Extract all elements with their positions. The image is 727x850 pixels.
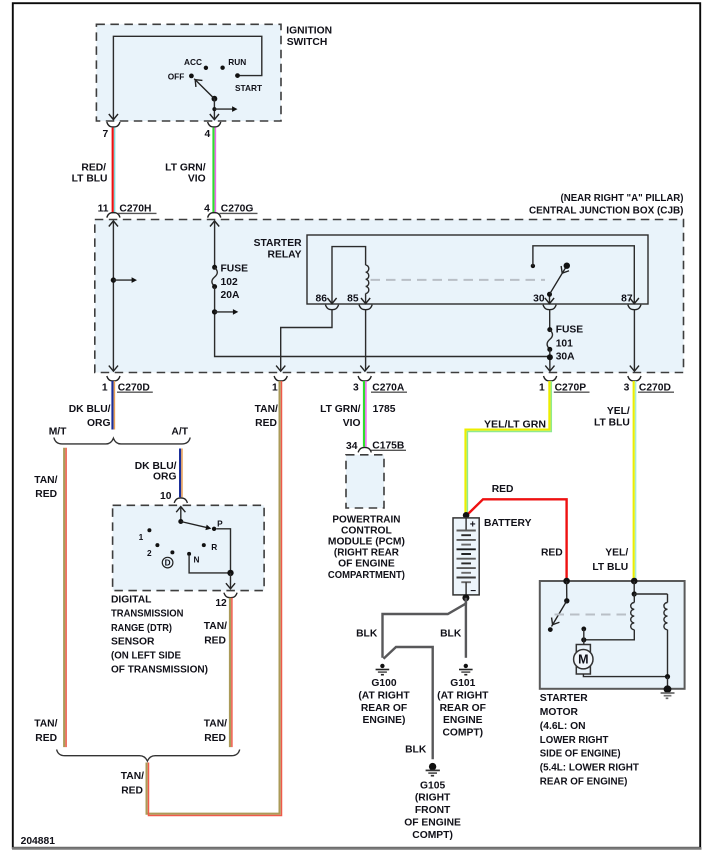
svg-text:(AT RIGHT: (AT RIGHT	[437, 690, 489, 701]
node fuse 102 branch	[212, 309, 217, 314]
wire BLK battery to G100	[383, 598, 466, 658]
svg-text:YEL/LT GRN: YEL/LT GRN	[484, 419, 546, 430]
svg-text:M: M	[578, 653, 588, 667]
svg-text:LOWER RIGHT: LOWER RIGHT	[540, 735, 609, 746]
svg-text:34: 34	[346, 441, 358, 452]
svg-text:COMPT): COMPT)	[412, 830, 453, 841]
node ACC	[204, 66, 208, 70]
svg-text:(4.6L: ON: (4.6L: ON	[540, 721, 586, 732]
svg-text:(RIGHT REAR: (RIGHT REAR	[334, 547, 400, 558]
svg-text:RED: RED	[35, 489, 57, 500]
svg-text:ORG: ORG	[87, 418, 110, 429]
svg-text:TAN/: TAN/	[121, 771, 144, 782]
svg-text:D: D	[165, 558, 171, 568]
svg-text:STARTER: STARTER	[540, 693, 588, 704]
connector C270H	[107, 213, 120, 218]
svg-text:ORG: ORG	[153, 471, 176, 482]
svg-text:TAN/: TAN/	[34, 475, 57, 486]
svg-text:REAR OF: REAR OF	[361, 703, 407, 714]
svg-text:+: +	[470, 520, 476, 531]
svg-text:REAR OF ENGINE): REAR OF ENGINE)	[540, 776, 628, 787]
svg-text:BLK: BLK	[440, 629, 462, 640]
svg-text:R: R	[211, 542, 217, 552]
svg-text:OF ENGINE: OF ENGINE	[338, 558, 395, 569]
svg-text:(ON LEFT SIDE: (ON LEFT SIDE	[111, 651, 181, 662]
node DTR output junction	[227, 570, 233, 576]
node motor feed	[581, 637, 586, 642]
svg-text:−: −	[470, 586, 476, 597]
svg-text:G105: G105	[420, 780, 445, 791]
svg-text:MOTOR: MOTOR	[540, 707, 579, 718]
ground G101	[459, 664, 473, 675]
node solenoid contact	[581, 627, 586, 632]
svg-text:(5.4L: LOWER RIGHT: (5.4L: LOWER RIGHT	[540, 763, 640, 774]
svg-text:1: 1	[272, 382, 278, 393]
connector pin 7 cup	[107, 122, 120, 127]
svg-text:FUSE: FUSE	[221, 264, 249, 275]
node DTR P	[212, 527, 216, 531]
svg-text:1: 1	[539, 382, 545, 393]
wire CJB left vertical C270H to C270D	[112, 222, 114, 371]
wire YEL/LT GRN C270P to battery	[466, 381, 550, 513]
svg-text:BLK: BLK	[405, 745, 427, 756]
svg-text:TAN/: TAN/	[34, 719, 57, 730]
relay fixed contact 87	[531, 264, 535, 268]
svg-text:LT BLU: LT BLU	[592, 562, 628, 573]
fuse F102	[212, 265, 217, 270]
wire DTR P to junction	[216, 529, 230, 570]
wire pin 7 arrow down	[109, 114, 118, 120]
svg-text:30: 30	[533, 294, 545, 305]
solenoid hold-in coil	[667, 594, 669, 603]
svg-text:TRANSMISSION: TRANSMISSION	[111, 609, 184, 620]
relay mechanical link dashed	[371, 279, 546, 281]
svg-text:3: 3	[353, 382, 359, 393]
svg-text:7: 7	[102, 129, 108, 140]
relay coil L1	[366, 265, 369, 293]
starter relay box	[307, 235, 648, 304]
node start signal	[631, 578, 638, 585]
svg-text:12: 12	[215, 598, 227, 609]
wire DTR entry arrow	[176, 507, 185, 513]
svg-text:VIO: VIO	[343, 418, 361, 429]
svg-text:10: 10	[160, 491, 172, 502]
svg-text:LT BLU: LT BLU	[594, 418, 630, 429]
svg-text:RANGE (DTR): RANGE (DTR)	[111, 623, 172, 634]
wire YEL/LT BLU C270D to starter	[633, 381, 635, 580]
wire relay 87 to C270D	[633, 310, 635, 371]
wire TAN/RED DTR pin 12 down	[229, 598, 231, 747]
wire LT GRN/VIO ignition to C270G	[212, 128, 214, 213]
svg-text:1785: 1785	[373, 404, 396, 415]
wire RED/LT BLU ignition to C270H	[112, 128, 114, 213]
svg-text:G100: G100	[371, 678, 396, 689]
svg-text:RELAY: RELAY	[268, 249, 302, 260]
svg-text:VIO: VIO	[188, 174, 206, 185]
svg-text:FUSE: FUSE	[556, 324, 584, 335]
CJB box	[95, 220, 684, 373]
DTR sensor box	[113, 505, 265, 590]
node OFF	[189, 74, 194, 79]
solenoid pull-in coil	[633, 594, 635, 603]
svg-text:SWITCH: SWITCH	[287, 37, 328, 48]
wire DTR N to junction	[189, 556, 230, 573]
wire RED battery to starter	[468, 499, 567, 579]
svg-text:RED: RED	[492, 484, 514, 495]
wire DK BLU/ORG C270D to split	[111, 381, 113, 430]
DTR rotor	[178, 519, 183, 524]
wire DK BLU/ORG A/T branch	[179, 449, 181, 498]
svg-text:RED: RED	[204, 636, 226, 647]
svg-text:RED: RED	[541, 548, 563, 559]
svg-text:LT GRN/: LT GRN/	[165, 163, 206, 174]
svg-text:N: N	[194, 554, 200, 564]
node fuse101 junction	[549, 349, 551, 370]
svg-text:85: 85	[347, 294, 359, 305]
wire pivot down to pin 4	[213, 99, 215, 119]
node CJB left branch	[111, 277, 116, 282]
node DTR D	[170, 550, 174, 554]
wire fuse 102 down and right to fuse 101 node	[215, 287, 550, 357]
svg-text:(AT RIGHT: (AT RIGHT	[358, 690, 410, 701]
wire TAN/RED merged tail	[147, 381, 280, 814]
connector C270D pin 1	[107, 376, 120, 381]
connector C270A pin 3	[358, 376, 371, 381]
connector pin 1 (TAN/RED)	[274, 376, 287, 381]
svg-text:START: START	[235, 83, 262, 93]
svg-text:RED: RED	[255, 418, 277, 429]
svg-text:IGNITION: IGNITION	[286, 26, 332, 37]
node DTR 1	[147, 528, 151, 532]
svg-text:BLK: BLK	[356, 629, 378, 640]
svg-text:LT BLU: LT BLU	[72, 174, 108, 185]
wire BLK to G105	[384, 647, 433, 759]
svg-text:TAN/: TAN/	[255, 404, 278, 415]
svg-text:TAN/: TAN/	[204, 621, 227, 632]
wire CJB entry arrows	[109, 221, 118, 227]
svg-text:RED/: RED/	[81, 163, 106, 174]
svg-text:4: 4	[204, 129, 210, 140]
ground starter case	[664, 685, 672, 693]
svg-text:COMPARTMENT): COMPARTMENT)	[328, 570, 405, 581]
svg-text:SIDE OF ENGINE): SIDE OF ENGINE)	[540, 749, 621, 760]
svg-text:CONTROL: CONTROL	[341, 525, 392, 536]
svg-text:102: 102	[221, 277, 238, 288]
svg-text:OFF: OFF	[168, 71, 185, 81]
node DTR 2	[155, 543, 159, 547]
svg-text:ENGINE: ENGINE	[443, 715, 483, 726]
relay pin cups	[325, 305, 338, 310]
svg-text:OF ENGINE: OF ENGINE	[404, 817, 461, 828]
svg-text:RED: RED	[121, 786, 143, 797]
fuse F101	[549, 310, 551, 330]
wire DTR junction to pin 12	[230, 573, 232, 588]
battery plates	[457, 530, 476, 532]
node DTR N	[187, 552, 191, 556]
svg-text:POWERTRAIN: POWERTRAIN	[332, 514, 400, 525]
connector DTR pin 12	[224, 593, 237, 598]
svg-text:DIGITAL: DIGITAL	[111, 594, 151, 605]
svg-text:MODULE (PCM): MODULE (PCM)	[328, 536, 405, 547]
node RUN	[220, 66, 224, 70]
svg-text:TAN/: TAN/	[204, 719, 227, 730]
connector pin 4 cup	[208, 122, 221, 127]
battery bottom post	[465, 582, 467, 596]
wire branch arrow right	[214, 108, 232, 110]
svg-text:RUN: RUN	[228, 57, 246, 67]
connector C270D pin 3	[628, 376, 641, 381]
svg-text:11: 11	[98, 203, 109, 214]
wire C270G to fuse 102	[214, 222, 216, 268]
svg-text:1: 1	[139, 532, 144, 542]
svg-text:20A: 20A	[221, 290, 240, 301]
svg-text:4: 4	[204, 203, 210, 214]
ground G100	[376, 664, 390, 675]
svg-text:204881: 204881	[21, 836, 56, 847]
ground G105	[429, 763, 436, 770]
svg-text:30A: 30A	[556, 352, 575, 363]
svg-text:86: 86	[316, 294, 328, 305]
svg-text:DK BLU/: DK BLU/	[135, 461, 177, 472]
battery top post	[465, 518, 467, 531]
svg-text:SENSOR: SENSOR	[111, 637, 155, 648]
svg-text:A/T: A/T	[171, 427, 188, 438]
wire ignition internal loop to START	[113, 36, 261, 119]
wire TAN/RED M/T branch	[63, 448, 65, 747]
svg-text:(NEAR RIGHT "A" PILLAR): (NEAR RIGHT "A" PILLAR)	[561, 193, 684, 204]
svg-text:CENTRAL JUNCTION BOX (CJB): CENTRAL JUNCTION BOX (CJB)	[529, 206, 684, 217]
svg-text:LT GRN/: LT GRN/	[320, 404, 361, 415]
label D circled	[162, 557, 173, 568]
PCM box	[346, 455, 384, 508]
ignition switch box	[96, 24, 281, 121]
svg-text:RED: RED	[35, 733, 57, 744]
ignition rotor arm	[212, 96, 218, 102]
svg-text:YEL/: YEL/	[607, 406, 630, 417]
svg-text:REAR OF: REAR OF	[440, 703, 486, 714]
node DTR R	[202, 543, 206, 547]
svg-text:ACC: ACC	[184, 57, 202, 67]
node ignition feed branch	[212, 107, 216, 111]
node battery feed	[563, 578, 570, 585]
wire LT GRN/VIO C270A to PCM	[363, 381, 365, 447]
svg-text:FRONT: FRONT	[415, 805, 451, 816]
svg-text:101: 101	[556, 338, 573, 349]
starter motor box	[540, 581, 685, 689]
svg-text:3: 3	[624, 382, 630, 393]
connector C270P pin 1	[544, 376, 557, 381]
node starter ground junction	[665, 674, 670, 679]
wire to hold-in coil	[634, 593, 667, 595]
svg-text:OF TRANSMISSION): OF TRANSMISSION)	[111, 664, 208, 675]
starter solenoid switch	[566, 581, 568, 601]
merge brace	[57, 750, 240, 762]
border bottom gray edge	[12, 847, 702, 850]
wire BLK battery to G101	[465, 598, 467, 658]
relay armature	[550, 266, 567, 295]
svg-text:BATTERY: BATTERY	[484, 518, 532, 529]
svg-text:2: 2	[147, 548, 152, 558]
starter motor M	[583, 640, 585, 645]
wire relay 86 to CJB pin 1	[281, 310, 332, 371]
wire motor to ground	[583, 674, 667, 677]
svg-text:COMPT): COMPT)	[442, 727, 483, 738]
svg-text:(RIGHT: (RIGHT	[415, 793, 451, 804]
relay switch pin 30	[549, 294, 551, 303]
svg-text:DK BLU/: DK BLU/	[69, 404, 111, 415]
svg-text:ENGINE): ENGINE)	[363, 715, 406, 726]
svg-text:RED: RED	[204, 733, 226, 744]
node starter contact	[548, 627, 553, 632]
svg-text:G101: G101	[450, 678, 475, 689]
svg-text:YEL/: YEL/	[605, 548, 628, 559]
wire coil to pin 85	[365, 294, 367, 304]
svg-text:M/T: M/T	[49, 427, 67, 438]
svg-text:P: P	[217, 518, 223, 528]
svg-text:1: 1	[102, 382, 108, 393]
wire relay 85 to C270A	[365, 310, 367, 371]
connector C270G	[208, 213, 221, 218]
starter mechanical link dashed	[555, 614, 631, 616]
split brace M/T A/T	[54, 438, 190, 444]
relay coil circuit pin 86 to 85	[332, 247, 366, 303]
battery	[463, 512, 470, 519]
node START	[235, 73, 240, 78]
svg-text:STARTER: STARTER	[254, 238, 302, 249]
